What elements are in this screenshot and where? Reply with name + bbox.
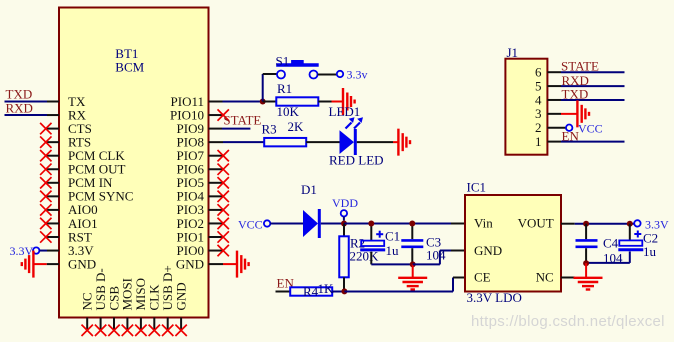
svg-text:https://blog.csdn.net/qlexcel: https://blog.csdn.net/qlexcel (471, 313, 665, 330)
IC1 pin NC name (536, 270, 554, 285)
wire R1 to ground (318, 101, 343, 103)
junction at C2 top (627, 221, 633, 227)
wire BT1.PIO11 to node A (209, 101, 263, 103)
designator R1 (277, 81, 292, 96)
J1 pin number 5 (535, 78, 542, 93)
svg-text:BCM: BCM (115, 60, 144, 75)
svg-text:3.3V LDO: 3.3V LDO (467, 290, 522, 305)
designator LED1 (329, 104, 361, 119)
wire EN net at J1.1 (547, 141, 624, 143)
power port 3.3V at BT1 pin 3.3V (10, 244, 60, 258)
BT1 left pin 3.3V name (68, 243, 94, 258)
designator J1 (507, 45, 519, 60)
value 3.3V LDO of IC1 (467, 290, 522, 305)
BT1 left pin RX name (68, 107, 87, 122)
svg-text:1u: 1u (386, 243, 400, 258)
BT1 bottom pin GND (no-connect) (173, 282, 188, 336)
svg-text:R1: R1 (277, 81, 292, 96)
capacitor C3 (401, 224, 423, 265)
BT1 pin PCM OUT no-connect stub + X (40, 164, 59, 175)
J1 pin number 4 (535, 92, 542, 107)
svg-text:IC1: IC1 (467, 180, 487, 195)
BT1 pin PCM CLK no-connect stub + X (40, 150, 59, 161)
BT1 pin CTS no-connect stub + X (40, 123, 59, 134)
LED LED1 (340, 117, 364, 155)
BT1 pin PIO5 no-connect stub + X (209, 177, 229, 188)
BT1 right pin GND name (176, 256, 204, 271)
node A junction on PIO11 net (260, 99, 266, 105)
BT1 bottom pin MOSI (no-connect) (120, 278, 135, 336)
value 1K of R4 (318, 281, 335, 296)
BT1 pin PIO10 no-connect stub + X (209, 109, 229, 120)
BT1 left pin AIO1 name (68, 216, 98, 231)
IC1 pin CE name (474, 270, 491, 285)
J1 pin number 3 (535, 106, 542, 121)
svg-text:1K: 1K (318, 281, 335, 296)
svg-text:RXD: RXD (6, 100, 33, 115)
wire IC1.GND to ground node (413, 251, 465, 265)
svg-text:TXD: TXD (562, 87, 589, 102)
BT1 left pin RST name (68, 229, 92, 244)
BT1 pin RTS no-connect stub + X (40, 136, 59, 147)
diode D1 (303, 209, 319, 238)
wire to earth (right) (585, 263, 587, 278)
BT1 left pin PCM CLK name (68, 148, 125, 163)
svg-text:Vin: Vin (474, 216, 493, 231)
ground symbol after LED1 (398, 129, 410, 156)
BT1 pin PIO2 no-connect stub + X (209, 218, 229, 229)
svg-text:C4: C4 (603, 235, 619, 250)
J1 pin number 2 (535, 120, 542, 135)
BT1 pin PIO1 no-connect stub + X (209, 231, 229, 242)
svg-text:TXD: TXD (6, 87, 33, 102)
svg-text:GND: GND (176, 256, 204, 271)
power port VDD (332, 196, 358, 221)
BT1 left pin PCM IN name (68, 175, 113, 190)
svg-text:EN: EN (562, 128, 580, 143)
watermark text (471, 313, 665, 330)
designator S1 (276, 54, 290, 69)
designator C1 (385, 228, 400, 243)
svg-text:GND: GND (474, 243, 502, 258)
net label RXD at J1 (562, 73, 589, 88)
wire S1 to 3.3v port (318, 74, 337, 76)
net label STATE at J1 (561, 59, 599, 74)
svg-text:GND: GND (173, 282, 188, 310)
BT1 right pin PIO6 name (177, 162, 205, 177)
power port 3.3V (output) (634, 218, 669, 232)
IC IC1 (3.3V LDO) body (465, 195, 561, 292)
svg-text:6: 6 (535, 65, 542, 80)
earth ground symbol (middle) (398, 278, 427, 290)
net label RXD (6, 100, 33, 115)
wire node B to IC1.CE (344, 278, 465, 292)
BT1 pin PIO7 no-connect stub + X (209, 150, 229, 161)
designator D1 (301, 182, 317, 197)
BT1 bottom pin CSB (no-connect) (106, 286, 121, 336)
svg-text:2K: 2K (288, 119, 305, 134)
svg-text:R4: R4 (303, 284, 319, 299)
designator R4 (303, 284, 319, 299)
BT1 right pin PIO5 name (177, 175, 204, 190)
BT1 pin PIO4 no-connect stub + X (209, 191, 229, 202)
BT1 right pin PIO8 name (177, 134, 204, 149)
svg-text:S1: S1 (276, 54, 290, 69)
svg-text:2: 2 (535, 120, 542, 135)
wire C1 bottom to ground node (371, 263, 412, 265)
svg-text:5: 5 (535, 78, 542, 93)
net label TXD at J1 (562, 87, 589, 102)
svg-text:3.3v: 3.3v (347, 67, 368, 81)
wire STATE net from BT1.PIO9 (209, 128, 251, 130)
wire VCC to D1 (270, 223, 303, 225)
BT1 pin PCM IN no-connect stub + X (40, 177, 59, 188)
BT1 pin AIO0 no-connect stub + X (40, 204, 59, 215)
value 104 of C3 (426, 247, 446, 262)
IC1 pin GND name (474, 243, 502, 258)
svg-text:STATE: STATE (561, 59, 599, 74)
BT1 right pin PIO11 name (171, 94, 204, 109)
net label EN (left) (277, 275, 295, 290)
switch S1 (276, 60, 319, 79)
J1 pin number 6 (535, 65, 542, 80)
wire node A to R1 (263, 101, 277, 103)
ground symbol at J1.3 (547, 100, 589, 127)
value 1u of C2 (643, 244, 657, 259)
ground symbol at BT1 left GND pin (22, 251, 59, 278)
resistor R1 (276, 97, 318, 105)
BT1 pin PIO0 no-connect stub + X (209, 245, 229, 256)
BT1 left pin PCM OUT name (68, 162, 125, 177)
power port VCC at J1.2 (547, 122, 602, 136)
resistor R4 (290, 287, 332, 295)
wire ground node to earth (412, 264, 414, 277)
BT1 bottom pin USB D- (no-connect) (93, 268, 108, 336)
BT1 left pin AIO0 name (68, 202, 98, 217)
designator R3 (262, 121, 277, 136)
designator C3 (426, 234, 441, 249)
svg-text:LED1: LED1 (329, 104, 361, 119)
value 1u of C1 (386, 243, 400, 258)
power port VCC (238, 217, 270, 231)
svg-text:3: 3 (535, 106, 542, 121)
svg-text:3.3V: 3.3V (645, 218, 669, 232)
junction at C1 top (368, 221, 374, 227)
BT1 pin RST no-connect stub + X (40, 231, 59, 242)
BT1 right pin PIO1 name (177, 229, 204, 244)
svg-text:VCC: VCC (578, 122, 603, 136)
BT1 left pin RTS name (68, 134, 91, 149)
BT1 pin AIO1 no-connect stub + X (40, 218, 59, 229)
capacitor C2 (polarized) (618, 224, 643, 263)
value RED LED of LED1 (329, 153, 384, 168)
BT1 left pin GND name (68, 256, 96, 271)
power port 3.3v (337, 67, 368, 81)
wire RXD net at J1.5 (547, 85, 624, 87)
svg-text:CE: CE (474, 270, 491, 285)
junction at C3 top (409, 221, 415, 227)
net label STATE (223, 112, 261, 127)
BT1 pin PIO6 no-connect stub + X (209, 164, 229, 175)
designator R2 (350, 236, 365, 251)
svg-text:10K: 10K (277, 104, 300, 119)
svg-text:VDD: VDD (332, 196, 358, 210)
BT1 right pin PIO7 name (177, 148, 205, 163)
wire node A up to switch S1 (263, 74, 277, 102)
node B junction (EN rail) (341, 288, 347, 294)
BT1 right pin PIO2 name (177, 216, 204, 231)
svg-text:VOUT: VOUT (518, 216, 554, 231)
designator C4 (603, 235, 619, 250)
BT1 bottom pin CLK (no-connect) (147, 284, 162, 336)
svg-text:C1: C1 (385, 228, 400, 243)
capacitor C1 (polarized) (360, 224, 385, 265)
wire R4 to node B (332, 291, 344, 293)
IC1 pin Vin name (474, 216, 493, 231)
BT1 left pin CTS name (68, 121, 92, 136)
node VDD junction (341, 221, 347, 227)
wire EN to R4 (276, 291, 291, 293)
BT1 left pin PCM SYNC name (68, 189, 133, 204)
BT1 right pin PIO4 name (177, 189, 205, 204)
wire VDD rail to IC1.Vin (344, 223, 465, 225)
designator C2 (643, 230, 658, 245)
BT1 right pin PIO3 name (177, 202, 204, 217)
junction at C4 top (583, 221, 589, 227)
svg-text:STATE: STATE (223, 112, 261, 127)
ground symbol at BT1 right GND pin (209, 251, 249, 278)
resistor R3 (264, 138, 306, 146)
BT1 right pin PIO9 name (177, 121, 204, 136)
wire D1 to node VDD (321, 223, 344, 225)
BT1 bottom pin MISO (no-connect) (133, 278, 148, 336)
J1 pin number 1 (535, 134, 542, 149)
svg-text:D1: D1 (301, 182, 317, 197)
IC BT1 (BCM bluetooth module) body (59, 8, 209, 318)
wire LED1 to ground (357, 141, 399, 143)
ground node junction (410, 261, 416, 267)
ground symbol after R1 (343, 88, 355, 115)
BT1 pin PIO3 no-connect stub + X (209, 204, 229, 215)
IC1 pin VOUT name (518, 216, 554, 231)
svg-text:J1: J1 (507, 45, 519, 60)
svg-text:4: 4 (535, 92, 542, 107)
wire R3 to LED1 (306, 141, 339, 143)
svg-text:NC: NC (536, 270, 554, 285)
connector J1 body (505, 59, 547, 155)
value 2K of R3 (288, 119, 305, 134)
wire IC1.NC stub (561, 277, 575, 279)
earth ground symbol (right) (574, 278, 603, 290)
wire BT1.PIO8 to R3 (209, 141, 265, 143)
BT1 bottom pin USB D+ (no-connect) (160, 265, 175, 336)
svg-text:1: 1 (535, 134, 542, 149)
BT1 pin PCM SYNC no-connect stub + X (40, 191, 59, 202)
wire TXD net at J1.4 (547, 99, 624, 101)
BT1 right pin PIO10 name (170, 107, 204, 122)
svg-text:RED LED: RED LED (329, 153, 384, 168)
designator IC1 (467, 180, 487, 195)
svg-text:R3: R3 (262, 121, 277, 136)
net label TXD (6, 87, 33, 102)
svg-text:1u: 1u (643, 244, 657, 259)
BT1 left pin TX name (68, 94, 86, 109)
wire RXD net to BT1.RX (5, 114, 60, 116)
wire IC1.VOUT to 3.3V port (561, 223, 634, 225)
ground node junction (right) (583, 260, 589, 266)
wire C2 bottom to ground node (586, 262, 630, 264)
svg-text:VCC: VCC (238, 217, 263, 231)
svg-text:RXD: RXD (562, 73, 589, 88)
capacitor C4 (576, 224, 598, 264)
wire TXD net to BT1.TX (5, 101, 60, 103)
BT1 bottom pin NC (no-connect) (80, 292, 95, 336)
value 10K of R1 (277, 104, 300, 119)
net label EN at J1 (562, 128, 580, 143)
value 220K of R2 (350, 248, 380, 263)
BT1 right pin PIO0 name (177, 243, 204, 258)
wire STATE net at J1.6 (547, 71, 624, 73)
resistor R2 (339, 224, 349, 292)
value 104 of C4 (603, 251, 623, 266)
